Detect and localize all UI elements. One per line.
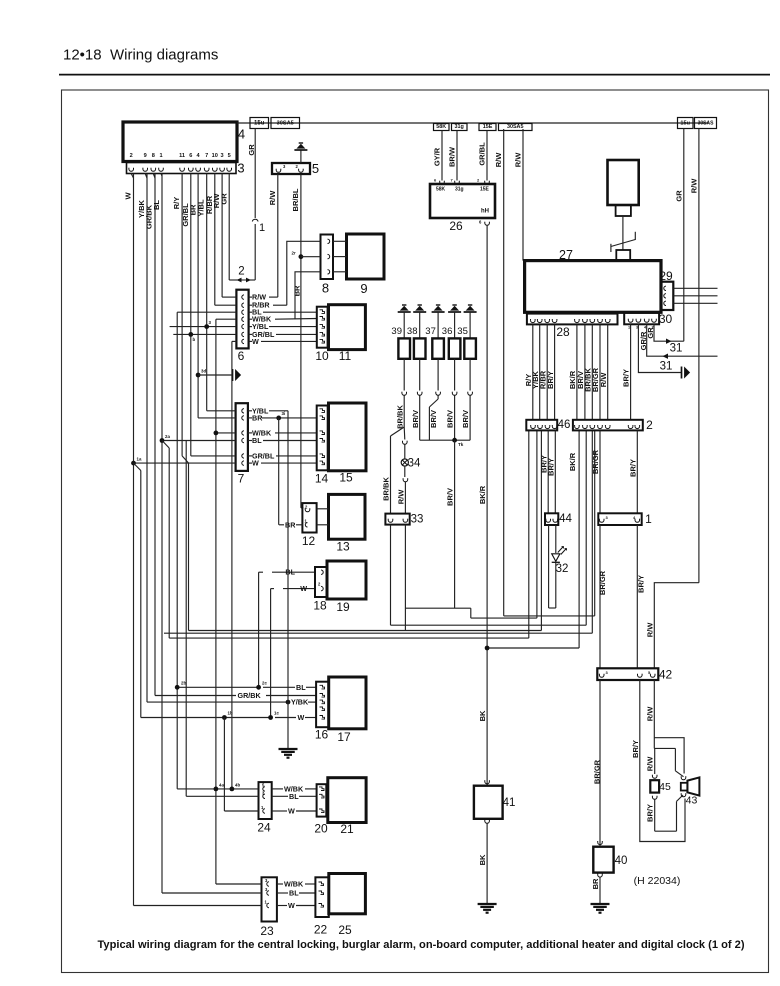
svg-text:58K: 58K [436,124,446,130]
svg-text:R/W: R/W [514,152,523,168]
connector 20 [317,784,327,816]
wire 44 left down [548,525,550,608]
svg-text:BL: BL [285,568,295,577]
diag branch to bus [162,441,169,449]
pins of 42 [599,675,604,677]
svg-text:BL: BL [252,436,262,445]
lamp 34 [401,459,408,466]
fuse 45 [650,780,659,792]
svg-text:1c: 1c [274,711,279,716]
junction on BR/BL [299,254,304,259]
svg-text:Y/BK: Y/BK [291,698,309,707]
riser L6 [578,430,580,648]
svg-text:17: 17 [337,730,351,744]
box 11 [329,305,366,350]
siren neck [616,205,631,216]
svg-text:W: W [124,192,133,200]
pins of 24 [263,787,265,791]
svg-text:58K: 58K [436,187,446,193]
svg-text:BR/BK: BR/BK [396,405,405,429]
wire GR/BL from pin 6 [190,174,192,456]
wire 8 pin3 to W/BK [295,272,321,319]
wire W row of 7 [134,462,236,464]
svg-text:(H 22034): (H 22034) [634,875,681,887]
svg-text:2b: 2b [181,681,186,686]
wire GR/BK from pin 8 [154,174,156,696]
svg-text:GR/BK: GR/BK [238,691,262,700]
svg-text:BK: BK [478,854,487,865]
fuse top grounds [398,311,411,313]
svg-text:W: W [300,584,307,593]
wire R/W conn5 to conn6 [277,174,279,297]
junction W/BK col at 7 [214,431,219,436]
wire BL row 24 [186,795,258,797]
ECU box 27 [525,261,661,313]
bus L6 [487,647,579,649]
svg-text:W: W [298,713,305,722]
pins of 22 [319,882,324,886]
connector 30 [624,313,659,325]
wire W/BK row 24 [177,788,258,790]
svg-text:23: 23 [260,924,274,938]
box 9 [347,234,385,279]
W drop column [270,589,272,718]
connector 33 [385,514,409,525]
wire BK column [486,225,488,786]
connector 28 [527,314,618,325]
svg-text:BR/GR: BR/GR [593,759,602,784]
wire W row 24 [224,810,258,812]
svg-text:W: W [252,459,259,468]
box 21 [328,778,366,823]
svg-text:BR/Y: BR/Y [636,575,645,593]
pins of 44 [546,520,551,522]
svg-text:2: 2 [646,418,653,432]
branch W/BK column [215,319,217,884]
box 40 [593,847,613,873]
svg-text:BR/V: BR/V [429,410,438,428]
inline link 1 marker [252,219,258,221]
connector 16 [316,682,329,728]
pins of 1 [599,520,604,522]
wire 35 down [469,397,471,440]
wire Y/BL row of 7 [207,410,236,412]
svg-text:BR: BR [285,520,296,529]
svg-text:22: 22 [314,923,328,937]
pins of 30 [628,320,633,322]
svg-text:31: 31 [660,361,673,373]
ground below 41 [478,903,497,905]
svg-text:1: 1 [259,222,265,234]
LED 32 [555,525,557,553]
svg-text:2r: 2r [292,251,296,256]
wire W from pin 2 [133,174,135,906]
fuse box 30SA5 left [271,118,300,129]
pins of 23 [267,882,269,886]
svg-text:27: 27 [559,248,573,262]
svg-text:GR/BL: GR/BL [478,142,487,166]
junction Y/BK [286,700,291,705]
connector 5 [272,163,310,174]
wire BR/Y 44 right [554,430,556,513]
box 15 [329,403,367,471]
svg-text:1: 1 [628,326,630,330]
svg-text:BR/Y: BR/Y [646,804,655,822]
wire GR right [683,129,685,342]
pins of 33 [388,520,393,522]
wire 8 pin1 to R/BR [287,241,321,305]
svg-text:BR/Y: BR/Y [628,459,637,477]
pins of 2 [575,426,580,428]
arrow 31b [663,354,669,359]
wire BR/W [456,131,458,181]
svg-text:BR/W: BR/W [448,146,457,167]
antenna ground above 5 [300,150,302,163]
svg-text:W: W [288,807,295,816]
pins of 8 [328,239,330,243]
svg-text:15u: 15u [254,120,265,126]
fuse bodies 39-35 [398,338,410,358]
svg-text:40: 40 [615,855,628,867]
junction BR row [276,416,281,421]
header rule [59,74,770,76]
svg-text:9: 9 [144,153,147,159]
svg-text:46: 46 [558,419,571,431]
svg-text:b: b [193,337,196,342]
riser L2a [536,430,538,618]
junction BL 2a [160,438,165,443]
svg-text:10: 10 [315,349,329,363]
svg-text:BR/V: BR/V [446,488,455,506]
fuse bottom leads [403,359,405,391]
wire 33 right down [404,525,406,631]
box 40 bottom [598,875,603,877]
inner loop top [654,747,675,749]
svg-text:43: 43 [686,795,698,807]
svg-text:R/W: R/W [646,756,655,772]
svg-text:31g: 31g [455,124,464,130]
riser L3 [585,430,587,625]
svg-text:W/BK: W/BK [284,880,304,889]
svg-text:42: 42 [659,668,673,682]
pins of 5 [276,170,281,172]
wire W row 16 [141,717,271,719]
svg-text:BL: BL [289,792,299,801]
svg-text:6: 6 [189,153,192,159]
wire 8 pin2 to BR/BL [301,256,321,258]
svg-text:Typical wiring diagram for the: Typical wiring diagram for the central l… [97,939,744,951]
svg-text:15E: 15E [483,124,493,130]
wire R/W col b [522,129,524,261]
wire BL row 23 [162,892,262,894]
svg-text:3: 3 [237,161,244,176]
svg-text:34: 34 [408,458,421,470]
svg-text:BR/GR: BR/GR [591,449,600,474]
wire R/BR row [215,304,237,306]
pins of 18 [321,570,323,574]
svg-text:1: 1 [645,512,652,526]
wire R/W elbow [654,583,699,669]
wire W/BK row of 7 [216,432,236,434]
connector strip 3 [127,163,237,174]
svg-text:hH: hH [481,209,489,215]
bus L5 [169,637,529,639]
fuse box 15u right [678,118,694,129]
svg-text:37: 37 [425,326,436,337]
connector 24 [259,782,272,819]
junction Y/BL col [204,324,209,329]
inner loop bottom [655,830,677,832]
svg-text:W: W [252,337,259,346]
pins of 6 [242,295,244,299]
svg-text:R/W: R/W [645,706,654,722]
wire W/BK row 23 [216,883,262,885]
fuse box 15E [479,124,496,131]
wire BR/GR to 1 [599,430,601,513]
wire GR from pin 5 [228,174,230,281]
fuse box 58K [434,124,450,131]
top supply bus [237,122,709,124]
wire BR into 12 [279,524,284,526]
svg-text:1: 1 [159,153,162,159]
svg-text:15u: 15u [680,120,690,126]
svg-text:7: 7 [205,153,208,159]
junction 1c [268,715,273,720]
connector 12 [302,503,316,532]
svg-text:BL: BL [289,889,299,898]
pins of 20 [319,787,324,791]
svg-text:BR/V: BR/V [411,410,420,428]
svg-text:24: 24 [257,821,271,835]
svg-text:10: 10 [212,153,218,159]
pins of 46 [531,426,536,428]
svg-text:2: 2 [238,266,244,278]
svg-text:R/W: R/W [599,372,608,388]
svg-text:13: 13 [336,540,350,554]
BL branch column 24 [185,441,187,797]
bus L2b [504,615,595,617]
ground below 16 [287,702,289,748]
wire BL from pin 1 [161,174,163,894]
svg-text:BR/Y: BR/Y [622,369,631,387]
svg-text:38: 38 [407,326,418,337]
svg-text:15: 15 [339,471,353,485]
wire BR/Y to 1 [636,430,638,513]
fuse box 31g [452,124,468,131]
svg-text:BL: BL [152,200,161,210]
riser L4b [591,430,593,633]
siren lead [622,216,624,250]
wire GR/BL row [173,333,236,335]
svg-text:29: 29 [659,269,673,283]
svg-text:BK: BK [478,710,487,721]
connector 2 mid [573,420,643,431]
wire GR/BL row of 7 [191,455,236,457]
svg-text:BL: BL [296,683,306,692]
svg-text:1a: 1a [137,457,142,462]
junction 1b [222,715,227,720]
connector 1 [598,513,641,525]
box 13 [329,494,366,539]
connector 44 [545,513,558,525]
svg-text:30SA5: 30SA5 [277,120,294,126]
pins of 14 [320,409,325,413]
svg-text:36: 36 [442,326,453,337]
wire BL to 18 [259,571,263,573]
wire Y/BK from pin 9 [146,174,148,703]
branch W column [231,341,233,789]
wire R/BR from pin 10 [214,174,216,306]
box 26 [430,184,495,218]
wire GR riser to fuse 1 [229,279,237,281]
svg-text:9: 9 [360,281,367,296]
svg-text:7: 7 [238,472,245,486]
svg-text:R/W: R/W [690,178,699,194]
svg-text:BR: BR [591,878,600,889]
svg-text:35: 35 [457,326,468,337]
svg-text:19: 19 [336,600,350,614]
wire R/W 45 [652,776,657,778]
pins of 29 [664,286,666,290]
wire BR/Y 45 [652,797,657,799]
diag R/Y to bus [182,456,188,463]
connector 8 [321,235,334,280]
wire W/BK row to 10 [216,318,237,320]
svg-text:14: 14 [315,472,329,486]
loop under 32 [549,607,556,609]
wire BR/Y 44 left [547,430,549,513]
W branch column [134,463,141,470]
svg-text:30SA5: 30SA5 [507,124,523,130]
connector 7 [236,403,248,471]
svg-text:GR: GR [220,193,229,205]
bracket Tk [420,439,470,441]
svg-text:26: 26 [449,219,463,233]
svg-text:1b: 1b [228,711,233,716]
branch BL column [176,312,178,789]
wire BR/Y 30 down [630,324,632,420]
wire 33 left down [390,525,392,626]
wire BL row 16 [177,686,258,688]
bus L1 [405,607,470,609]
svg-text:3i: 3i [282,411,286,416]
wire BR from pin 4 [197,174,199,418]
svg-text:31g: 31g [455,187,464,193]
junction GR/BL col [188,332,193,337]
box 41 lead [485,782,490,784]
connector 10 [317,307,328,348]
box 40 lead in [598,842,603,844]
svg-text:6: 6 [238,349,245,363]
svg-text:2: 2 [130,153,133,159]
svg-text:BR/V: BR/V [461,410,470,428]
pins of 10 [320,310,325,314]
pins of 16 [320,685,325,689]
svg-text:2a: 2a [165,434,170,439]
switch to 27 [610,244,612,252]
svg-text:31: 31 [670,343,683,355]
wires 8 to 9 [333,240,347,242]
svg-text:R/W: R/W [268,190,277,206]
lamp lower lead [403,480,408,482]
pins of 12 [305,510,310,512]
svg-text:30: 30 [659,312,673,326]
riser L2b [594,430,596,616]
fuse box 30SA5 mid [499,124,533,131]
LED 32 lower [555,563,557,608]
bus L3 [391,624,587,626]
wire 30 ground [638,324,681,372]
lighter 43 [681,783,688,791]
svg-text:R/W: R/W [645,622,654,638]
wire BR/V trunk [454,440,456,608]
svg-text:BR: BR [252,413,263,422]
wire R/Y from pin 11 [181,174,183,456]
svg-text:11: 11 [339,349,352,363]
svg-text:33: 33 [411,514,424,526]
ground below 40 [591,903,610,905]
wire R/W 42 down [653,680,655,748]
wire GR/R 31b [647,324,718,356]
switch box on 27 [616,250,630,260]
wire W to 18 [271,588,274,590]
wire BL row to 10 [177,311,236,313]
svg-text:30SAS: 30SAS [698,120,715,126]
svg-text:GR: GR [675,190,684,202]
bus L1 zlink [470,608,472,618]
wire BR/GR 1 to 42 [599,525,601,668]
svg-text:W: W [288,901,295,910]
svg-text:BR/BK: BR/BK [382,477,391,501]
svg-text:R/W: R/W [494,152,503,168]
wires 28 to 46 and 2 [532,324,534,419]
pins of 28 [531,320,536,322]
wire GR 31a [654,324,684,341]
Y/BK riser from 7 row [287,411,289,702]
svg-text:Tk: Tk [458,442,464,447]
wire BL row of 7 [162,440,236,442]
loop top 43 [654,738,684,774]
riser L5 [528,430,530,638]
svg-text:5: 5 [228,153,231,159]
svg-text:3: 3 [221,153,224,159]
wire 36 down [454,397,456,440]
svg-text:8: 8 [322,281,329,296]
control unit box 4 [123,122,237,162]
wire 38 down [419,397,421,440]
wire BR/BL conn5 down [300,174,302,508]
svg-text:GR: GR [247,144,256,156]
wire BR/Y 1 to 42 [636,525,638,668]
svg-text:BR/Y: BR/Y [546,371,555,389]
svg-text:BR/GR: BR/GR [598,570,607,595]
svg-text:41: 41 [503,797,516,809]
connector 6 [236,290,248,349]
wire 39 down [403,397,405,427]
box 41 [474,786,503,819]
W branch to 24 [223,718,225,812]
svg-text:11: 11 [179,153,185,159]
wire R/W from pin 3 [221,174,223,298]
arrow 31a [666,339,672,344]
svg-text:39: 39 [391,326,402,337]
wire GY/R [441,131,443,181]
svg-text:R/W: R/W [397,489,406,505]
svg-text:21: 21 [340,822,354,836]
junction 4a [214,787,219,792]
wire GR/BK row 16 [155,695,236,697]
bus L2a [471,617,537,619]
